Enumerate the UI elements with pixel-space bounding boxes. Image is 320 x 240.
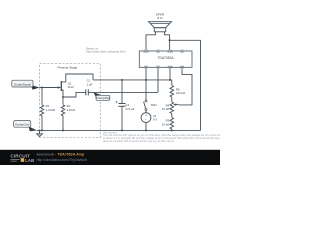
note Based on xyxy=(86,46,126,53)
node C2 bottom on rail xyxy=(121,129,123,131)
wire pin GND bottom xyxy=(169,69,171,80)
node source / R2 top xyxy=(62,96,64,98)
note annotation paragraph xyxy=(103,130,233,142)
flag GuitarSignal xyxy=(12,80,40,90)
node R3 bottom on rail xyxy=(171,129,173,131)
node speaker-right / VOL run xyxy=(169,39,171,41)
svg-text:9 V: 9 V xyxy=(153,118,157,122)
svg-text:OUT2: OUT2 xyxy=(167,52,174,54)
svg-text:OUT1: OUT1 xyxy=(143,52,150,54)
svg-text:LAB: LAB xyxy=(25,158,34,163)
banner CircuitLab xyxy=(0,150,220,165)
ground symbol xyxy=(37,130,43,136)
pin box 7 bottom xyxy=(168,66,171,68)
node battery bottom on rail xyxy=(145,129,147,131)
wire pin VP bottom to switch xyxy=(145,69,147,100)
node ground symbol on rail xyxy=(38,129,40,131)
transistor Q1 J112 xyxy=(39,81,66,97)
node R1 bottom on ground rail xyxy=(41,129,43,131)
pin box 2 top xyxy=(156,50,159,52)
svg-text:10 kΩ: 10 kΩ xyxy=(162,122,170,126)
svg-text:VOL: VOL xyxy=(180,67,185,69)
svg-text:http://www.diale.org/guitar.ht: http://www.diale.org/guitar.html xyxy=(86,50,126,54)
node R1 top on gate wire xyxy=(41,86,43,88)
svg-text:TDA7052A: TDA7052A xyxy=(158,56,175,60)
wire C1 to IN xyxy=(88,91,158,93)
svg-text:Preamplifier: Preamplifier xyxy=(96,96,110,100)
resistor R2 xyxy=(61,97,64,130)
wire source node to C1 xyxy=(63,92,86,97)
svg-text:GND: GND xyxy=(167,67,172,69)
svg-text:1.0 MΩ: 1.0 MΩ xyxy=(46,108,56,112)
pin box 8 bottom xyxy=(180,66,183,68)
svg-text:4.8 kΩ: 4.8 kΩ xyxy=(67,108,76,112)
node GND pin on rail end xyxy=(169,79,171,81)
flag GuitarGnd xyxy=(14,121,37,132)
annotation box Preamp Stage (dashed) xyxy=(40,64,101,138)
op-amp IC U1 TDA7052A box xyxy=(139,51,192,67)
potentiometer R4 xyxy=(170,102,179,118)
wire VP rail H1 xyxy=(93,79,172,81)
svg-text:GuitarGnd: GuitarGnd xyxy=(15,123,30,127)
component value labels xyxy=(46,13,186,127)
svg-text:GuitarSignal: GuitarSignal xyxy=(14,82,31,86)
capacitor C1 xyxy=(86,89,89,95)
svg-text:470 µF: 470 µF xyxy=(126,107,135,111)
pin box 6 bottom xyxy=(156,66,159,68)
switch SW1 xyxy=(144,100,147,111)
svg-text:Preamp Stage: Preamp Stage xyxy=(58,66,78,70)
IC pin name labels xyxy=(143,52,185,69)
flag Preamplifier xyxy=(93,92,110,100)
pin box 4 top xyxy=(180,50,183,52)
junction dots xyxy=(38,39,172,131)
wire VOL top run xyxy=(170,40,201,130)
wire battery to rail xyxy=(145,123,147,131)
svg-text:about 6 mA when R5 is turned a: about 6 mA when R5 is turned all the way… xyxy=(103,139,175,143)
node C2 top on VP rail xyxy=(121,79,123,81)
pin box 3 top xyxy=(168,50,171,52)
node R2 bottom on ground rail xyxy=(62,129,64,131)
svg-text:−: − xyxy=(145,118,147,122)
resistor R5 xyxy=(170,80,174,102)
ground rail xyxy=(37,129,201,131)
pin box 5 bottom xyxy=(144,66,147,68)
resistor R1 xyxy=(40,88,43,131)
svg-text:http://circuitlab.com/c/7hy2av: http://circuitlab.com/c/7hy2av6u6r xyxy=(37,158,88,162)
speaker SP1 xyxy=(149,22,172,32)
speaker terminal right wire xyxy=(165,32,170,50)
svg-text:100 kΩ: 100 kΩ xyxy=(176,91,186,95)
node VP pin on VP rail xyxy=(145,79,147,81)
wire pin IN bottom xyxy=(157,69,159,93)
svg-text:10 kΩ: 10 kΩ xyxy=(162,107,170,111)
svg-text:1 µF: 1 µF xyxy=(87,82,93,86)
resistor R3 xyxy=(170,118,174,131)
svg-text:8 Ω: 8 Ω xyxy=(158,16,164,20)
svg-text:IN: IN xyxy=(157,67,160,69)
wire drain run xyxy=(66,74,93,82)
wire pin VOL bottom to wiper xyxy=(179,69,192,105)
wire switch to battery xyxy=(145,110,147,112)
capacitor C2 (decoupling) xyxy=(116,80,126,130)
svg-text:kennoncob · TDA7052A Amp: kennoncob · TDA7052A Amp xyxy=(37,153,85,157)
svg-text:J112: J112 xyxy=(68,85,74,89)
pin box 1 top xyxy=(144,50,147,52)
svg-text:SW1: SW1 xyxy=(151,103,158,107)
svg-text:VP: VP xyxy=(144,67,148,69)
battery V1 9V xyxy=(141,113,151,123)
speaker terminal left wire xyxy=(146,32,156,50)
